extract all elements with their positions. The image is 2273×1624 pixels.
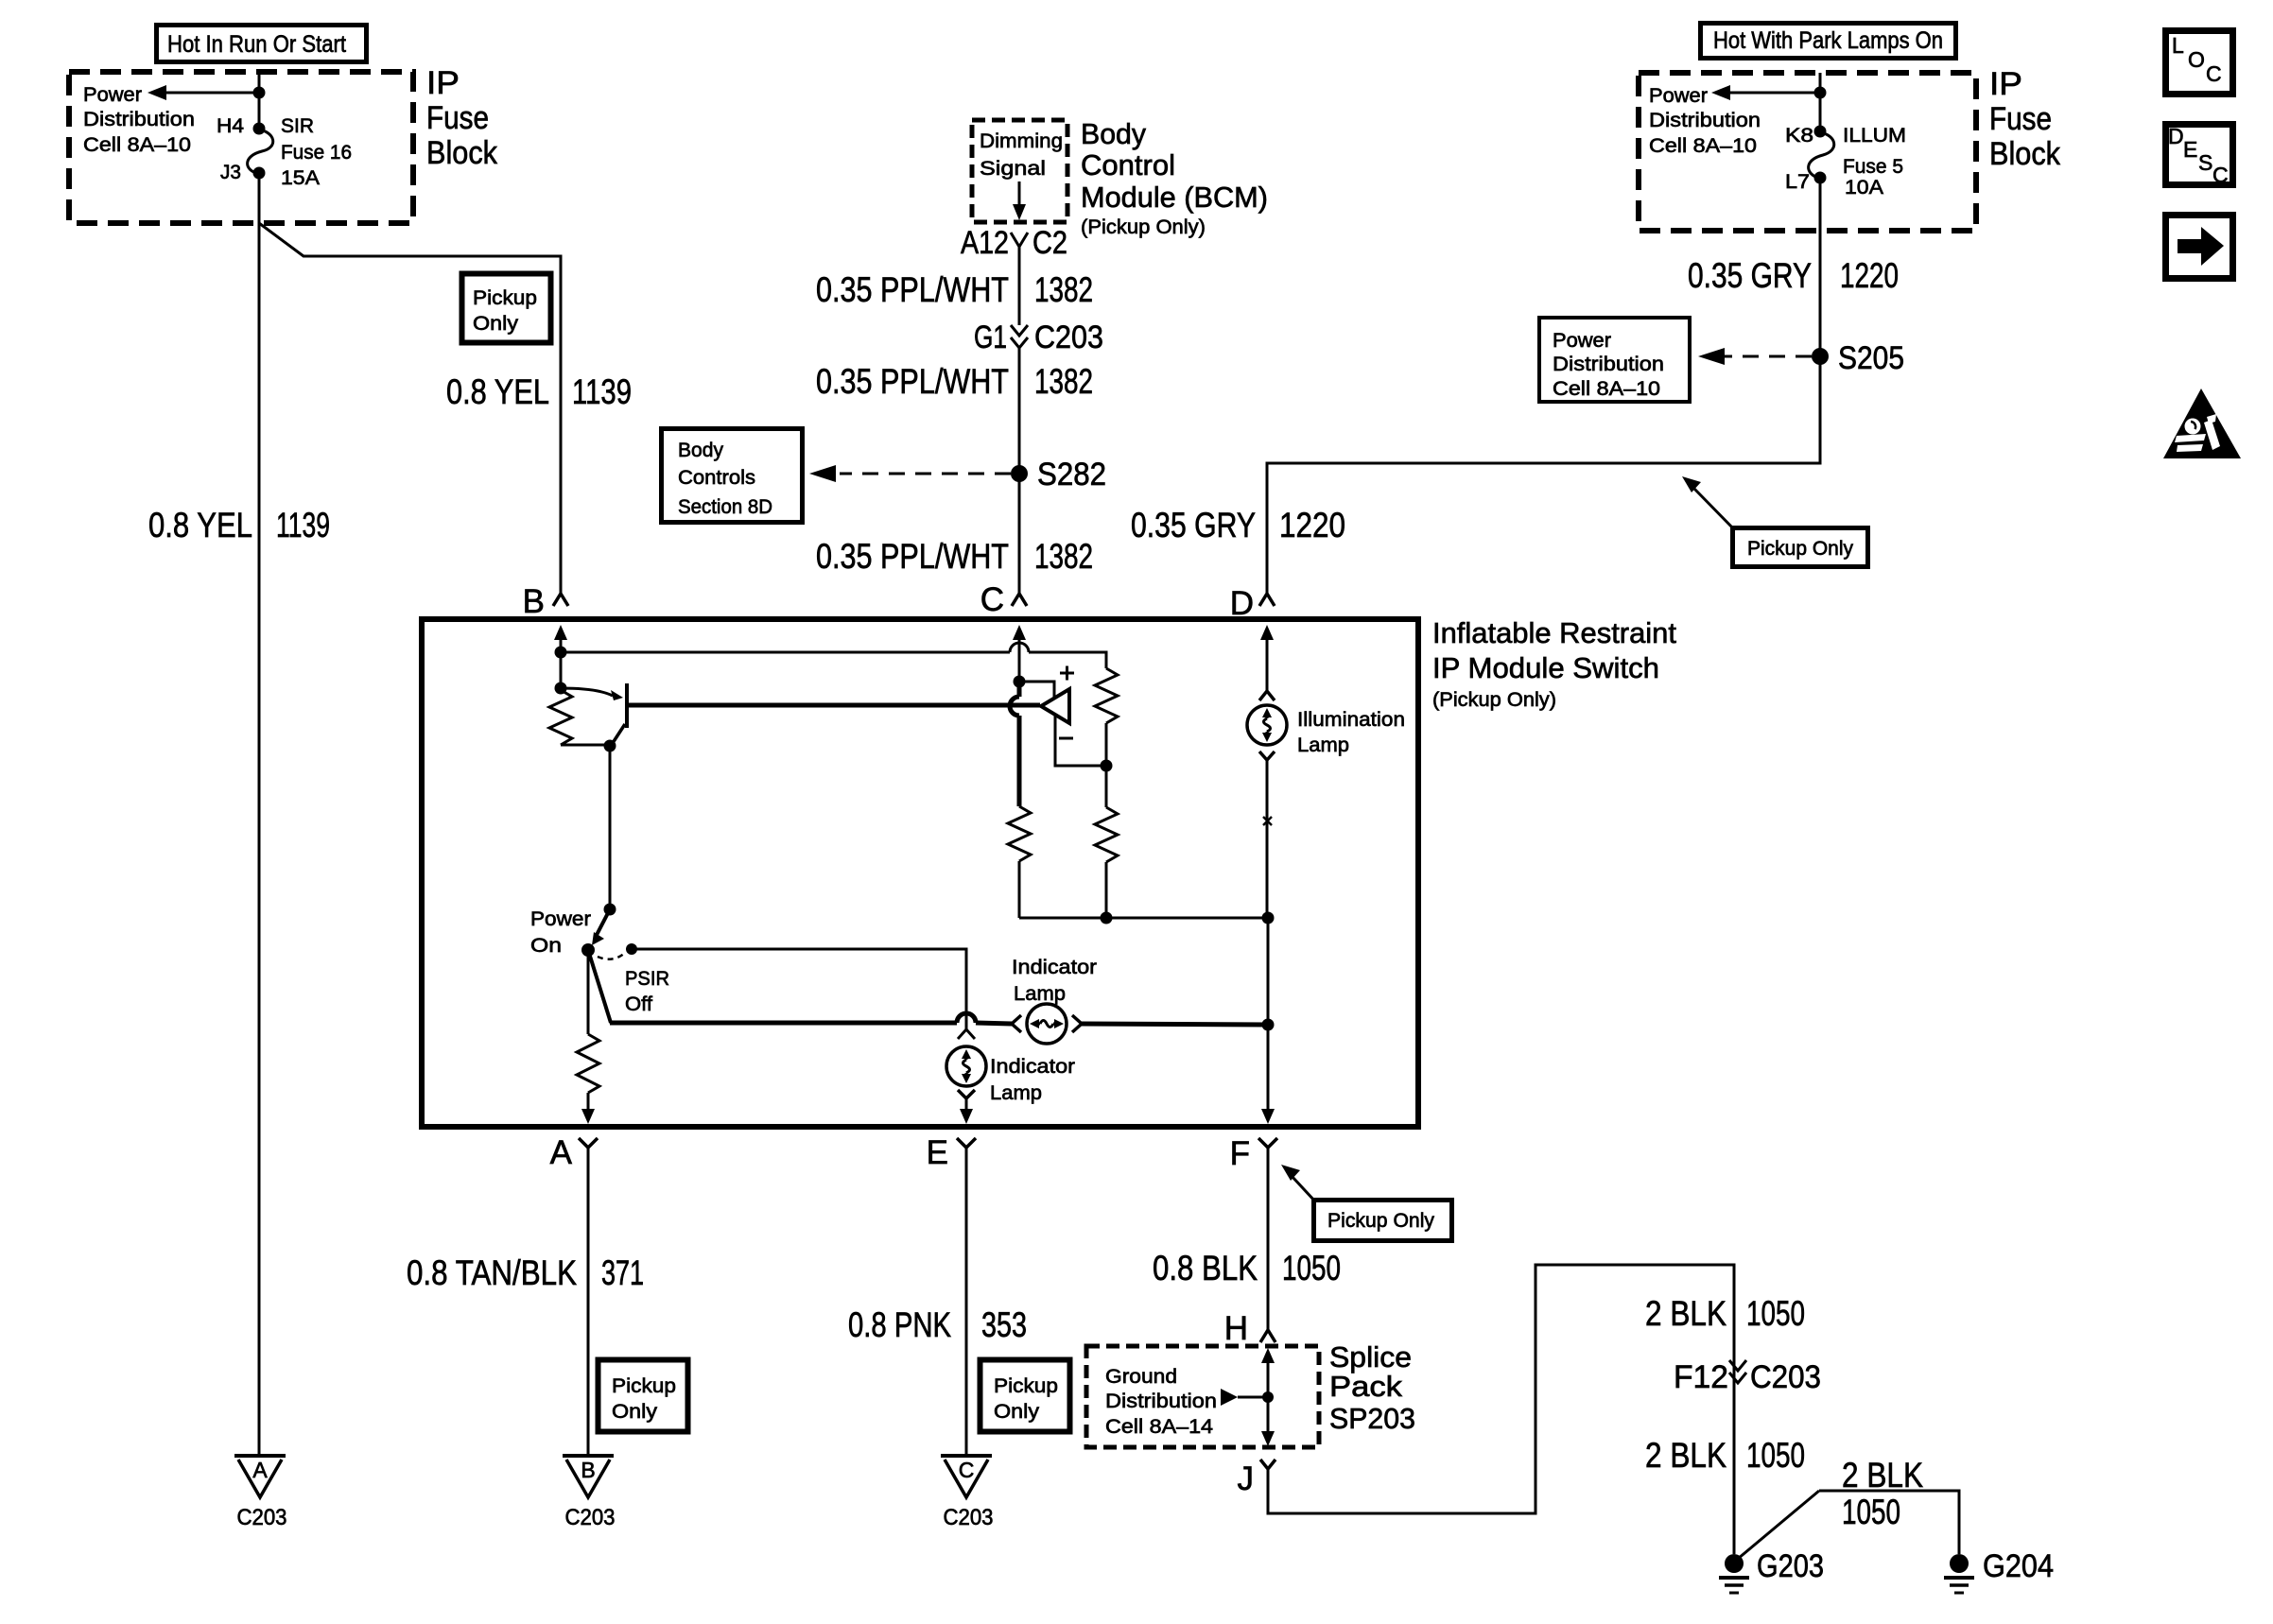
fuse value labels SIR Fuse 16 15A	[281, 114, 352, 189]
svg-text:1382: 1382	[1034, 270, 1093, 309]
internal arrow up at D	[1260, 625, 1274, 691]
svg-text:1050: 1050	[1746, 1436, 1805, 1475]
wire terminal A to connector B C203	[587, 1148, 590, 1454]
power distribution arrow (left)	[147, 85, 266, 100]
pickup only callout (E wire)	[980, 1360, 1070, 1432]
label 0.35 PPL/WHT 1382 (3)	[816, 537, 1093, 576]
connector triangle C C203	[941, 1456, 994, 1530]
svg-text:C203: C203	[1750, 1359, 1821, 1395]
wire: park lamp feed into fuse	[1819, 73, 1822, 131]
svg-text:Cell 8A–10: Cell 8A–10	[1553, 377, 1660, 400]
svg-text:Power: Power	[530, 907, 591, 930]
svg-text:On: On	[530, 934, 562, 957]
svg-text:S282: S282	[1037, 457, 1106, 492]
svg-text:C203: C203	[944, 1505, 994, 1530]
svg-text:E: E	[927, 1134, 948, 1171]
svg-text:Inflatable Restraint: Inflatable Restraint	[1432, 616, 1676, 649]
svg-text:Hot With Park Lamps On: Hot With Park Lamps On	[1713, 27, 1943, 54]
ground distribution dashed box	[1086, 1346, 1319, 1447]
svg-text:K8: K8	[1785, 124, 1813, 147]
svg-text:J3: J3	[220, 161, 241, 183]
svg-text:(Pickup Only): (Pickup Only)	[1081, 216, 1206, 238]
svg-text:Section 8D: Section 8D	[678, 495, 772, 518]
label PSIR off	[625, 967, 669, 1015]
svg-text:Block: Block	[426, 135, 498, 171]
label 0.8 TAN/BLK 371	[407, 1253, 644, 1292]
label indicator lamp (E column)	[990, 1055, 1075, 1104]
switch module outline	[422, 619, 1418, 1127]
pickup only callout (B branch)	[462, 274, 551, 343]
svg-text:0.35 PPL/WHT: 0.35 PPL/WHT	[816, 537, 1009, 576]
wire C2 to C203	[1018, 246, 1021, 325]
svg-text:Cell 8A–10: Cell 8A–10	[83, 133, 191, 156]
terminal F	[1230, 1135, 1277, 1172]
svg-text:0.8 BLK: 0.8 BLK	[1153, 1249, 1258, 1287]
title box: Hot In Run Or Start	[157, 26, 367, 62]
svg-text:Distribution: Distribution	[1105, 1390, 1217, 1412]
svg-text:0.35 PPL/WHT: 0.35 PPL/WHT	[816, 270, 1009, 309]
svg-text:1050: 1050	[1282, 1249, 1341, 1287]
svg-text:1050: 1050	[1746, 1294, 1805, 1333]
svg-text:0.8 YEL: 0.8 YEL	[446, 372, 549, 411]
fuse F5: ILLUM Fuse 5 10A	[1809, 126, 1834, 184]
svg-text:G203: G203	[1757, 1548, 1824, 1584]
svg-text:10A: 10A	[1845, 176, 1884, 199]
svg-text:Fuse 16: Fuse 16	[281, 141, 352, 164]
resistor R1 (base-emitter)	[549, 690, 616, 752]
terminal J	[1238, 1460, 1276, 1497]
power distribution cell 8A-10 text (left fuse block)	[83, 83, 195, 156]
svg-text:Distribution: Distribution	[83, 108, 195, 130]
title box: Hot With Park Lamps On	[1701, 24, 1956, 59]
svg-text:0.35 GRY: 0.35 GRY	[1688, 256, 1812, 295]
svg-text:G204: G204	[1983, 1548, 2054, 1584]
transistor Q1	[611, 683, 627, 746]
svg-text:0.35 GRY: 0.35 GRY	[1131, 506, 1256, 544]
label 2 BLK 1050 (G204 branch)	[1842, 1456, 1923, 1531]
transistor Q1 emitter node	[555, 682, 624, 701]
svg-text:SIR: SIR	[281, 114, 314, 137]
svg-text:G1: G1	[974, 320, 1007, 355]
fuse terminal labels K8 L7	[1785, 124, 1813, 193]
svg-text:Power: Power	[83, 83, 142, 106]
SIR caution triangle	[2163, 389, 2241, 458]
IP fuse block (right) label	[1989, 66, 2061, 172]
svg-text:Distribution: Distribution	[1649, 109, 1761, 131]
dashed reference arrow to power distribution	[1698, 348, 1812, 365]
wire: battery feed into fuse	[258, 72, 261, 129]
label 0.8 PNK 353	[848, 1305, 1027, 1344]
svg-text:0.8 TAN/BLK: 0.8 TAN/BLK	[407, 1253, 577, 1292]
svg-text:Cell 8A–14: Cell 8A–14	[1105, 1415, 1213, 1438]
resistor R2 (switch to terminal A)	[577, 950, 599, 1124]
fuse terminal labels H4 J3	[217, 114, 244, 183]
wire branch to G204	[1738, 1491, 1959, 1559]
PSIR off contact with dashed travel arc	[598, 943, 637, 959]
svg-text:Controls: Controls	[678, 466, 755, 489]
svg-text:ILLUM: ILLUM	[1843, 124, 1906, 147]
svg-text:371: 371	[601, 1253, 644, 1292]
svg-text:Lamp: Lamp	[1014, 982, 1066, 1005]
svg-text:2 BLK: 2 BLK	[1645, 1436, 1726, 1475]
svg-text:Ground: Ground	[1105, 1365, 1177, 1388]
label 0.35 PPL/WHT 1382 (2)	[816, 362, 1093, 401]
pickup only callout (A wire)	[599, 1360, 688, 1432]
power distribution cell 8A-10 solid box	[1539, 318, 1690, 402]
svg-text:Fuse: Fuse	[426, 100, 489, 136]
internal arrow up at B	[554, 625, 567, 688]
op-amp output line to Q1 base	[628, 703, 1040, 708]
IP fuse block (left) label	[426, 65, 498, 171]
svg-text:Only: Only	[473, 312, 518, 335]
switch blade (power on)	[581, 909, 610, 957]
svg-text:1220: 1220	[1840, 256, 1899, 295]
svg-text:Fuse 5: Fuse 5	[1843, 155, 1903, 178]
svg-text:Pickup: Pickup	[994, 1374, 1058, 1397]
svg-text:Pickup: Pickup	[612, 1374, 676, 1397]
svg-text:Body: Body	[678, 439, 723, 461]
pickup only callout (F wire)	[1281, 1165, 1452, 1241]
svg-text:Indicator: Indicator	[990, 1055, 1075, 1078]
svg-text:L7: L7	[1785, 170, 1810, 193]
wire terminal E to connector C C203	[965, 1148, 968, 1454]
power distribution arrow (right)	[1711, 85, 1827, 100]
svg-text:F12: F12	[1674, 1359, 1728, 1395]
BCM dimming signal dashed box	[972, 120, 1067, 222]
switch common diagonal to lamp feed	[588, 950, 611, 1023]
svg-text:Off: Off	[625, 993, 652, 1015]
connector triangle B C203	[563, 1456, 616, 1530]
svg-text:B: B	[581, 1458, 595, 1482]
svg-text:Pickup Only: Pickup Only	[1327, 1209, 1434, 1232]
ground G204	[1944, 1548, 2054, 1593]
svg-text:Only: Only	[994, 1400, 1039, 1423]
svg-text:Indicator: Indicator	[1012, 956, 1097, 978]
wire: branch to switch terminal B	[259, 223, 561, 593]
svg-text:Cell 8A–10: Cell 8A–10	[1649, 134, 1757, 157]
svg-text:D: D	[1230, 585, 1254, 622]
svg-text:1139: 1139	[276, 506, 330, 544]
ground G203	[1719, 1548, 1824, 1593]
splice pack label	[1329, 1340, 1415, 1435]
svg-text:Module (BCM): Module (BCM)	[1081, 181, 1268, 214]
dashed reference arrow to body controls	[809, 465, 1011, 482]
svg-text:Pack: Pack	[1329, 1370, 1403, 1403]
bottom tie line to D column	[1019, 912, 1275, 924]
svg-text:PSIR: PSIR	[625, 967, 669, 990]
svg-text:H4: H4	[217, 114, 244, 137]
C column trunk with hop over op-amp output	[1010, 682, 1019, 806]
IP fuse block (left) dashed outline	[69, 72, 413, 223]
svg-text:1220: 1220	[1279, 506, 1345, 544]
svg-text:Distribution: Distribution	[1553, 353, 1664, 375]
svg-text:(Pickup Only): (Pickup Only)	[1432, 688, 1556, 711]
connector pin A12 / C2	[961, 225, 1067, 261]
op-amp U1	[1041, 689, 1069, 723]
wire terminal F to H	[1267, 1148, 1270, 1329]
svg-text:A12: A12	[961, 225, 1009, 261]
svg-text:Hot In Run Or Start: Hot In Run Or Start	[167, 31, 346, 58]
wire illumination lamp down to junction	[1259, 752, 1275, 918]
svg-text:Power: Power	[1649, 84, 1708, 107]
dimming signal output arrow	[1013, 181, 1026, 220]
svg-text:1382: 1382	[1034, 362, 1093, 401]
svg-text:IP Module Switch: IP Module Switch	[1432, 651, 1659, 684]
internal bus from B to pull-up resistor	[561, 643, 1106, 668]
indicator lamp (in-line)	[1012, 1004, 1082, 1044]
svg-text:IP: IP	[1989, 66, 2022, 102]
in-line connector F12 C203	[1674, 1359, 1821, 1395]
svg-text:C203: C203	[1034, 320, 1103, 355]
terminal A	[550, 1134, 598, 1171]
wire J to ground trunk	[1268, 1265, 1734, 1554]
pickup only callout (D wire)	[1682, 476, 1868, 567]
svg-text:C: C	[980, 581, 1004, 618]
label power on	[530, 907, 591, 957]
svg-text:D: D	[2168, 124, 2184, 148]
wire C203 to S282	[1018, 347, 1021, 474]
label indicator lamp (in-line)	[1012, 956, 1097, 1005]
svg-text:F: F	[1230, 1135, 1250, 1172]
wire: circuit 1139 down to connector A C203	[258, 173, 261, 1454]
svg-text:Block: Block	[1989, 136, 2061, 172]
svg-text:E: E	[2183, 137, 2197, 162]
svg-text:Power: Power	[1553, 329, 1611, 352]
splice S282	[1011, 457, 1106, 492]
wire: circuit 1220 down to S205	[1819, 178, 1822, 356]
op-amp U1 minus input feed	[1055, 715, 1113, 772]
svg-text:0.8 YEL: 0.8 YEL	[148, 506, 252, 544]
op-amp U1 plus input feed	[1019, 666, 1074, 700]
svg-text:C203: C203	[237, 1505, 287, 1530]
svg-text:Only: Only	[612, 1400, 657, 1423]
ground distribution text	[1105, 1365, 1217, 1438]
fuse value labels ILLUM Fuse 5 10A	[1843, 124, 1906, 199]
pull-up resistor R4	[1095, 668, 1118, 807]
switch module label	[1432, 616, 1676, 711]
svg-text:Pickup: Pickup	[473, 286, 537, 309]
label illumination lamp	[1297, 708, 1405, 756]
svg-text:1382: 1382	[1034, 537, 1093, 576]
resistor R3 (C column)	[1008, 806, 1031, 918]
LOC legend box	[2166, 31, 2233, 95]
terminal E	[927, 1134, 976, 1171]
svg-text:Signal: Signal	[980, 157, 1046, 180]
svg-text:J: J	[1238, 1460, 1255, 1497]
label 0.35 GRY 1220 (D branch)	[1131, 506, 1345, 544]
wire E lamp to bottom edge	[958, 1090, 975, 1124]
svg-text:H: H	[1224, 1310, 1248, 1347]
svg-text:O: O	[2188, 47, 2205, 72]
label 2 BLK 1050 (upper)	[1645, 1294, 1805, 1333]
BCM label	[1081, 117, 1268, 238]
svg-text:0.35 PPL/WHT: 0.35 PPL/WHT	[816, 362, 1009, 401]
svg-text:Body: Body	[1081, 117, 1146, 150]
lamp feed line to D column	[1082, 1019, 1275, 1031]
label 0.35 PPL/WHT 1382 (1)	[816, 270, 1093, 309]
svg-text:Control: Control	[1081, 148, 1175, 181]
svg-text:SP203: SP203	[1329, 1402, 1415, 1435]
svg-text:2 BLK: 2 BLK	[1842, 1456, 1923, 1494]
svg-text:C203: C203	[565, 1505, 616, 1530]
label 0.8 YEL 1139 (left wire)	[148, 506, 330, 544]
wire S282 to terminal C	[1018, 474, 1021, 593]
label 0.8 YEL 1139 (B branch)	[446, 372, 632, 411]
svg-text:L: L	[2172, 33, 2184, 58]
terminal D	[1230, 585, 1275, 622]
svg-text:A: A	[252, 1458, 268, 1482]
svg-text:Fuse: Fuse	[1989, 101, 2052, 137]
svg-text:Splice: Splice	[1329, 1340, 1412, 1373]
label 2 BLK 1050 (lower)	[1645, 1436, 1805, 1475]
svg-text:S: S	[2198, 150, 2212, 175]
terminal C	[980, 581, 1027, 618]
svg-text:C: C	[2212, 163, 2229, 187]
svg-text:S205: S205	[1838, 340, 1904, 376]
terminal B	[523, 583, 568, 620]
illumination lamp L1	[1247, 691, 1287, 745]
power distribution cell 8A-10 text (right fuse block)	[1649, 84, 1761, 157]
IP fuse block (right) dashed outline	[1639, 73, 1976, 231]
svg-text:1050: 1050	[1842, 1493, 1900, 1531]
DESC legend box	[2166, 124, 2233, 187]
wire PSIR contact to indicator lamp E column	[632, 949, 975, 1039]
svg-text:Lamp: Lamp	[990, 1081, 1042, 1104]
svg-text:Dimming: Dimming	[980, 130, 1063, 152]
connector triangle A C203	[234, 1456, 287, 1530]
fuse F16: SIR Fuse 16 15A	[248, 123, 273, 180]
splice pack SP203 node	[1221, 1348, 1275, 1446]
wire S205 down and across to terminal D	[1267, 356, 1820, 593]
wire D junction to terminal F	[1261, 918, 1275, 1124]
indicator lamp (E column)	[946, 1046, 986, 1086]
internal arrow up at C	[1013, 625, 1026, 688]
pull-up resistor R5	[1095, 807, 1118, 924]
svg-text:B: B	[523, 583, 545, 620]
svg-text:A: A	[550, 1134, 573, 1171]
svg-text:353: 353	[981, 1305, 1027, 1344]
svg-text:Illumination: Illumination	[1297, 708, 1405, 731]
wire Q1 collector down to switch	[604, 746, 616, 916]
svg-text:C: C	[959, 1458, 975, 1482]
body controls section 8D box	[662, 429, 803, 523]
svg-text:C2: C2	[1032, 225, 1067, 261]
svg-text:1139: 1139	[572, 372, 632, 411]
label 0.8 BLK 1050	[1153, 1249, 1341, 1287]
svg-text:15A: 15A	[281, 166, 321, 189]
direction arrow legend box	[2166, 216, 2233, 279]
svg-text:Pickup Only: Pickup Only	[1747, 537, 1853, 560]
svg-text:2 BLK: 2 BLK	[1645, 1294, 1726, 1333]
svg-text:0.8 PNK: 0.8 PNK	[848, 1305, 951, 1344]
svg-text:C: C	[2206, 61, 2222, 86]
terminal H	[1224, 1310, 1275, 1347]
label 0.35 GRY 1220 (upper)	[1688, 256, 1899, 295]
lamp feed line with hop over E wire	[610, 1013, 1012, 1024]
dimming signal text	[980, 130, 1063, 180]
splice S205	[1812, 340, 1904, 376]
svg-text:Lamp: Lamp	[1297, 734, 1349, 756]
svg-text:IP: IP	[426, 65, 460, 101]
in-line connector G1 C203	[974, 320, 1103, 355]
